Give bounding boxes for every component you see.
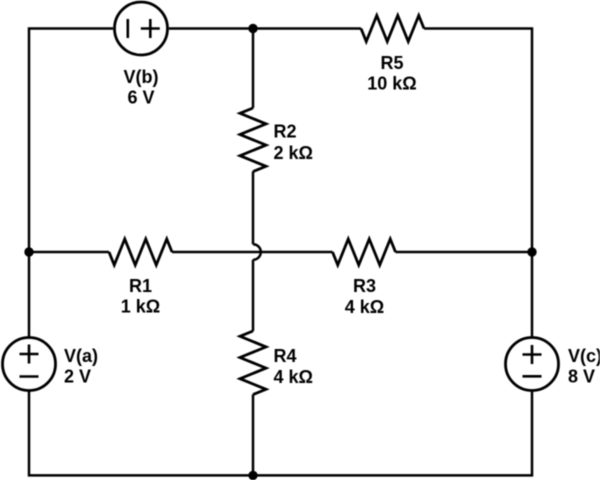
svg-text:R1: R1: [129, 276, 152, 296]
svg-text:R5: R5: [380, 53, 403, 73]
wire center vertical bottom (R4 to bottom node): [252, 395, 255, 476]
resistor R5 10 kOhm: [361, 16, 424, 94]
voltage source V(b) 6 V: [115, 2, 168, 108]
svg-text:R3: R3: [353, 276, 376, 296]
svg-text:8 V: 8 V: [568, 367, 595, 387]
wire center vertical top (node C to R2): [252, 29, 255, 109]
resistor R2 2 kOhm: [240, 108, 313, 172]
svg-text:R2: R2: [274, 122, 297, 142]
svg-text:6 V: 6 V: [127, 88, 154, 108]
node D junction dot (bottom): [248, 471, 257, 480]
svg-text:V(a): V(a): [64, 346, 98, 366]
wire center vertical (hop to R4): [252, 260, 255, 331]
wire top-left L (V(b) left lead to top-left corner down to V(a)): [29, 29, 113, 338]
wire middle-center (R1 to R3): [172, 251, 333, 254]
svg-text:10 kΩ: 10 kΩ: [367, 74, 416, 94]
wire hop over middle wire: [253, 244, 261, 260]
wire top-right L (R5 to top-right corner down to node B): [424, 29, 532, 253]
node B junction dot (middle right): [527, 247, 536, 256]
wire middle-left (node A to R1): [29, 251, 109, 254]
wire bottom-right L (V(c) bottom to bottom-right corner to bottom node): [253, 391, 532, 476]
svg-text:2 kΩ: 2 kΩ: [274, 143, 313, 163]
resistor R1 1 kOhm: [109, 239, 172, 317]
voltage source V(a) 2 V: [3, 338, 99, 391]
resistor R4 4 kOhm: [240, 331, 313, 395]
svg-text:V(b): V(b): [124, 67, 159, 87]
voltage source V(c) 8 V: [506, 338, 600, 391]
node C junction dot (top): [248, 24, 257, 33]
svg-text:R4: R4: [274, 346, 297, 366]
wire center vertical (R2 to hop): [252, 172, 255, 245]
svg-text:4 kΩ: 4 kΩ: [274, 367, 313, 387]
wire top middle (V(b) right lead to R5 left lead): [169, 27, 361, 30]
svg-text:4 kΩ: 4 kΩ: [345, 297, 384, 317]
wire middle-right (R3 to node B): [396, 251, 533, 254]
svg-text:V(c): V(c): [568, 346, 600, 366]
svg-text:1 kΩ: 1 kΩ: [121, 297, 160, 317]
svg-text:2 V: 2 V: [64, 367, 91, 387]
wire bottom-left L (bottom node to bottom-left corner up to V(a) bottom): [29, 391, 253, 476]
wire right (node B down to V(c) top): [531, 252, 534, 338]
resistor R3 4 kOhm: [333, 239, 396, 317]
node A junction dot (middle left): [24, 247, 33, 256]
